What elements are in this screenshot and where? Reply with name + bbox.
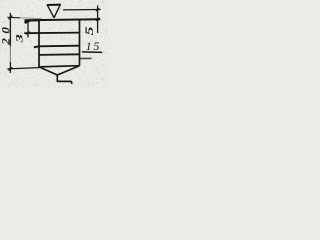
svg-text:3: 3: [14, 34, 25, 44]
outlet horizontal pipe: [57, 80, 72, 82]
cone left slant: [39, 67, 58, 75]
top duct upper line: [63, 9, 101, 11]
vessel bottom line: [39, 66, 80, 67]
dimension 20 vertical line upper: [9, 13, 11, 46]
funnel hopper top edge: [47, 4, 61, 6]
funnel right slant: [54, 5, 60, 18]
outlet end tick down: [71, 81, 73, 84]
dimension 20 vertical line faded middle: [9, 46, 11, 62]
tick dim20 bottom: [9, 67, 13, 70]
dimension line 5 vertical: [97, 6, 99, 34]
svg-text:20: 20: [0, 23, 12, 46]
vessel top line / duct lower line: [25, 19, 101, 20]
dimension 15 line: [82, 51, 102, 54]
tick dim3 bottom: [26, 32, 29, 35]
shelf 3: [39, 53, 79, 56]
tick dim3 top: [25, 20, 30, 23]
vessel lid thick left part: [25, 19, 41, 21]
tick dim5 bottom: [96, 18, 99, 21]
dimension 3 vertical line: [27, 21, 29, 37]
side stub nozzle right: [80, 57, 92, 59]
faint extension line for dim 20 top: [7, 16, 20, 19]
cone right slant: [57, 66, 79, 75]
shelf 2: [39, 45, 79, 48]
faint extension line continuation: [20, 18, 41, 19]
svg-text:15: 15: [86, 39, 102, 53]
vessel left wall: [38, 20, 40, 67]
tick dim5 top: [96, 8, 99, 11]
funnel left slant: [47, 5, 54, 18]
shelf 2 left stub tick: [34, 46, 40, 47]
shelf 1 with left extension: [24, 32, 79, 35]
vessel right wall: [79, 19, 81, 66]
dimension 20 vertical line lower: [9, 62, 11, 73]
tick dim20 top: [9, 16, 13, 19]
outlet down pipe: [56, 75, 58, 82]
extension line dim20 bottom: [7, 68, 39, 69]
svg-text:5: 5: [84, 26, 96, 36]
